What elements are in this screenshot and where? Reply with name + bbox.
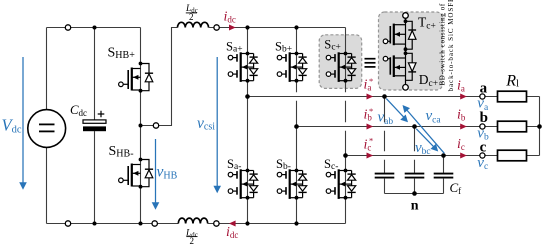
svg-text:n: n xyxy=(411,199,419,214)
svg-text:Rl: Rl xyxy=(505,73,519,90)
svg-text:SHB-: SHB- xyxy=(109,144,134,159)
svg-text:Cf: Cf xyxy=(450,180,462,196)
svg-text:Sb+: Sb+ xyxy=(275,40,292,55)
svg-text:vbc: vbc xyxy=(415,140,431,157)
svg-text:2: 2 xyxy=(189,12,194,22)
svg-text:Cdc: Cdc xyxy=(70,103,87,118)
svg-text:SHB+: SHB+ xyxy=(108,46,136,61)
svg-text:ia: ia xyxy=(457,79,465,94)
svg-text:idc: idc xyxy=(226,225,238,240)
svg-text:Sc-: Sc- xyxy=(324,157,338,172)
svg-text:Vdc: Vdc xyxy=(2,115,22,135)
svg-text:vHB: vHB xyxy=(157,164,178,182)
svg-text:Sb-: Sb- xyxy=(276,157,291,172)
svg-text:vab: vab xyxy=(378,110,394,127)
svg-text:ic: ic xyxy=(457,137,465,152)
svg-text:Sa-: Sa- xyxy=(227,157,241,172)
svg-text:BD-switch consisting of: BD-switch consisting of xyxy=(439,3,447,85)
svg-text:idc: idc xyxy=(224,10,236,25)
svg-text:vc: vc xyxy=(477,155,488,172)
svg-text:vca: vca xyxy=(426,108,442,125)
svg-text:vb: vb xyxy=(477,125,489,142)
svg-text:*: * xyxy=(369,136,373,146)
svg-text:Sa+: Sa+ xyxy=(226,40,243,55)
svg-text:va: va xyxy=(477,96,489,113)
svg-text:a: a xyxy=(480,81,488,97)
svg-text:*: * xyxy=(369,106,373,116)
svg-text:ib: ib xyxy=(457,107,466,122)
svg-text:*: * xyxy=(369,76,373,86)
svg-text:2: 2 xyxy=(190,236,195,246)
svg-text:back-to-back SiC MOSFETs: back-to-back SiC MOSFETs xyxy=(447,0,455,92)
svg-text:vcsi: vcsi xyxy=(197,115,215,133)
